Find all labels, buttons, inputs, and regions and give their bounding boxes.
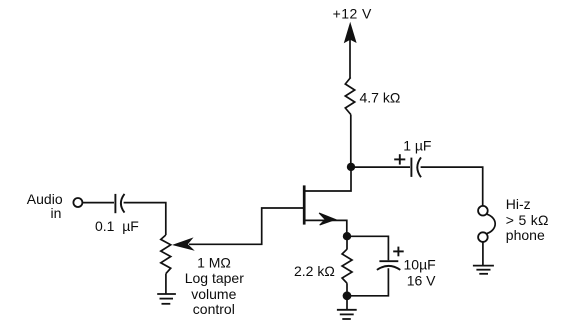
svg-text:> 5 kΩ: > 5 kΩ	[506, 212, 549, 228]
label Hi-z > 5 kOhm phone	[506, 196, 549, 243]
svg-text:control: control	[193, 301, 235, 317]
wire R3 to bottom node	[346, 283, 348, 296]
jack sleeve terminal circle	[478, 232, 488, 242]
potentiometer R2 1M zigzag	[161, 235, 171, 274]
svg-text:phone: phone	[506, 227, 545, 243]
resistor R1 4.7 kOhm	[345, 78, 354, 115]
wire C2 to phone jack	[421, 167, 483, 206]
wire collector node to capacitor C2	[351, 166, 410, 168]
wiper arrow of potentiometer	[174, 239, 193, 250]
svg-text:Hi-z: Hi-z	[506, 196, 531, 212]
ground symbol at phone jack	[473, 266, 494, 274]
wire C1 to potentiometer top	[124, 203, 166, 235]
jack curved link	[487, 214, 495, 234]
svg-text:1 MΩ: 1 MΩ	[197, 255, 231, 271]
input terminal circle	[73, 198, 82, 207]
junction bottom ground node	[343, 291, 352, 300]
svg-text:1 µF: 1 µF	[403, 138, 431, 154]
polarity + of C3	[393, 247, 404, 257]
svg-text:+12 V: +12 V	[333, 6, 372, 22]
labels 10uF 16 V	[404, 256, 437, 288]
polarity + of C2	[394, 154, 405, 164]
junction emitter node	[343, 232, 351, 240]
resistor R3 2.2 kOhm	[342, 249, 352, 283]
jack tip terminal circle	[478, 206, 488, 216]
Q1 emitter lead	[304, 220, 347, 236]
wire input terminal to C1	[83, 202, 114, 204]
svg-text:4.7 kΩ: 4.7 kΩ	[360, 90, 401, 106]
wire pot bottom to ground	[165, 274, 167, 294]
wire wiper to transistor base	[189, 208, 303, 244]
svg-text:16 V: 16 V	[407, 273, 436, 289]
svg-text:volume: volume	[191, 286, 236, 302]
wire emitter node to C3	[347, 236, 388, 260]
capacitor C2 1uF	[411, 157, 421, 177]
Q1 collector lead	[304, 167, 351, 191]
capacitor C1 0.1uF	[115, 194, 124, 213]
svg-text:Log taper: Log taper	[185, 270, 244, 286]
junction collector node	[347, 163, 355, 171]
svg-text:in: in	[51, 205, 62, 221]
wire R1 bottom to collector node	[350, 115, 352, 168]
labels 1 MOhm Log taper volume control	[185, 255, 244, 317]
power arrow up to +12V	[345, 24, 356, 79]
label Audio in	[27, 191, 63, 221]
transistor Q1 base bar	[303, 185, 306, 224]
wire bottom node to ground	[346, 296, 348, 310]
wire emitter node to R3	[346, 236, 348, 249]
Q1 emitter arrowhead	[319, 213, 335, 225]
ground symbol at R3	[337, 310, 357, 319]
svg-text:2.2 kΩ: 2.2 kΩ	[294, 263, 335, 279]
ground symbol at potentiometer	[157, 294, 176, 304]
wire C3 bottom to ground node	[351, 268, 388, 296]
wire jack sleeve to ground	[482, 242, 484, 265]
svg-text:10µF: 10µF	[404, 256, 436, 272]
svg-text:0.1 µF: 0.1 µF	[95, 218, 139, 234]
capacitor C3 10uF	[377, 261, 400, 270]
